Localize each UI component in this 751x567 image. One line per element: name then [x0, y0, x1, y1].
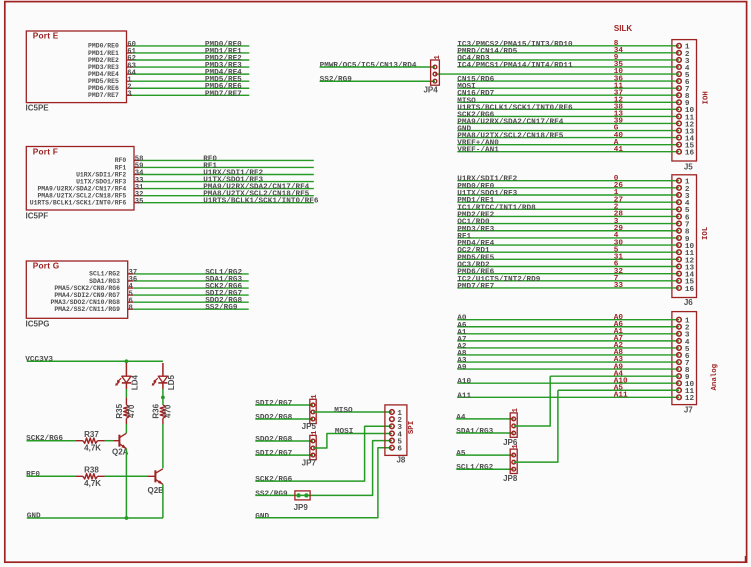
- svg-text:1: 1: [311, 394, 319, 399]
- svg-text:6: 6: [397, 446, 402, 454]
- svg-text:PMA9/U2RX/SDA2/CN17/RF4: PMA9/U2RX/SDA2/CN17/RF4: [457, 118, 563, 126]
- svg-text:JP7: JP7: [302, 458, 317, 467]
- svg-text:33: 33: [614, 282, 624, 290]
- svg-text:U1RTS/BCLK1/SCK1/INT0/RF6: U1RTS/BCLK1/SCK1/INT0/RF6: [203, 198, 319, 206]
- svg-text:JP8: JP8: [503, 474, 518, 483]
- svg-text:RF1: RF1: [115, 164, 127, 171]
- svg-text:VREF-/AN1: VREF-/AN1: [457, 147, 499, 155]
- svg-text:PMA2/SS2/CN11/RG9: PMA2/SS2/CN11/RG9: [54, 306, 120, 313]
- svg-text:1: 1: [512, 444, 520, 449]
- svg-text:SILK: SILK: [614, 24, 632, 33]
- svg-text:SDI2/RG7: SDI2/RG7: [255, 400, 292, 408]
- svg-text:SS2/RG9: SS2/RG9: [205, 304, 238, 312]
- svg-text:SCL1/RG2: SCL1/RG2: [456, 464, 493, 472]
- svg-text:A5: A5: [456, 450, 466, 458]
- svg-text:RF0: RF0: [115, 157, 127, 164]
- svg-text:GND: GND: [27, 513, 41, 521]
- svg-text:MISO: MISO: [334, 407, 353, 415]
- svg-text:3: 3: [127, 91, 131, 99]
- svg-text:1: 1: [434, 55, 442, 60]
- svg-text:4,7K: 4,7K: [84, 479, 101, 488]
- svg-text:16: 16: [685, 150, 695, 158]
- svg-text:1: 1: [311, 430, 319, 435]
- svg-text:Port G: Port G: [33, 261, 60, 271]
- svg-text:35: 35: [135, 198, 144, 206]
- svg-text:4,7K: 4,7K: [84, 443, 101, 452]
- svg-text:PMA5/SCK2/CN8/RG6: PMA5/SCK2/CN8/RG6: [54, 285, 120, 292]
- svg-text:A11: A11: [457, 392, 471, 400]
- svg-text:SPI: SPI: [408, 421, 416, 434]
- svg-text:PMD4/RE4: PMD4/RE4: [88, 71, 119, 78]
- svg-text:Port E: Port E: [33, 31, 59, 41]
- svg-text:R37: R37: [84, 430, 99, 439]
- svg-text:J6: J6: [684, 298, 693, 307]
- svg-text:A11: A11: [614, 392, 628, 400]
- svg-text:12: 12: [685, 395, 695, 403]
- svg-text:IC5PE: IC5PE: [26, 104, 50, 113]
- svg-text:PMD3/RE3: PMD3/RE3: [88, 64, 119, 71]
- svg-text:1: 1: [512, 408, 520, 413]
- svg-text:SS2/RG9: SS2/RG9: [320, 76, 353, 84]
- svg-text:PMD7/RE7: PMD7/RE7: [88, 92, 119, 99]
- svg-text:8: 8: [129, 304, 133, 312]
- svg-text:IC5PG: IC5PG: [26, 319, 50, 328]
- svg-text:U1TX/SDO1/RF3: U1TX/SDO1/RF3: [76, 178, 126, 185]
- svg-text:SDA1/RG3: SDA1/RG3: [456, 428, 493, 436]
- svg-text:PMA9/U2RX/SDA2/CN17/RF4: PMA9/U2RX/SDA2/CN17/RF4: [37, 185, 126, 192]
- svg-text:R38: R38: [84, 466, 99, 475]
- svg-text:SDO2/RG8: SDO2/RG8: [255, 436, 292, 444]
- svg-text:IOL: IOL: [702, 226, 710, 240]
- svg-text:IC5PF: IC5PF: [26, 211, 49, 220]
- svg-text:SCL1/RG2: SCL1/RG2: [89, 271, 120, 278]
- svg-text:SDA1/RG3: SDA1/RG3: [89, 278, 120, 285]
- svg-text:Q2B: Q2B: [148, 486, 165, 495]
- svg-text:RF0: RF0: [26, 471, 40, 479]
- svg-text:PMD5/RE5: PMD5/RE5: [88, 78, 119, 85]
- svg-text:LD5: LD5: [167, 374, 176, 390]
- svg-text:A10: A10: [457, 378, 471, 386]
- svg-text:J5: J5: [684, 162, 693, 171]
- svg-text:A4: A4: [456, 414, 466, 422]
- svg-text:GND: GND: [255, 513, 269, 521]
- svg-text:PMA4/SDI2/CN9/RG7: PMA4/SDI2/CN9/RG7: [54, 292, 120, 299]
- svg-text:Port F: Port F: [33, 146, 58, 156]
- svg-text:JP5: JP5: [302, 422, 317, 431]
- svg-text:PMA8/U2TX/SCL2/CN18/RF5: PMA8/U2TX/SCL2/CN18/RF5: [37, 192, 126, 199]
- svg-text:A9: A9: [457, 364, 467, 372]
- svg-text:PMWR/OC5/IC5/CN13/RD4: PMWR/OC5/IC5/CN13/RD4: [320, 62, 417, 70]
- svg-text:U1RTS/BCLK1/SCK1/INT0/RF6: U1RTS/BCLK1/SCK1/INT0/RF6: [30, 200, 127, 207]
- svg-text:SCK2/RG6: SCK2/RG6: [255, 476, 292, 484]
- svg-text:R36: R36: [151, 403, 160, 418]
- svg-text:LD4: LD4: [131, 374, 140, 390]
- svg-text:U1RX/SDI1/RF2: U1RX/SDI1/RF2: [76, 171, 126, 178]
- svg-text:SS2/RG9: SS2/RG9: [255, 490, 288, 498]
- svg-text:Analog: Analog: [711, 363, 719, 390]
- svg-text:PMD2/RE2: PMD2/RE2: [88, 57, 119, 64]
- svg-text:PMD6/RE6: PMD6/RE6: [88, 85, 119, 92]
- svg-text:JP9: JP9: [294, 503, 309, 512]
- svg-text:PMD7/RE7: PMD7/RE7: [205, 90, 242, 98]
- svg-text:J7: J7: [684, 405, 693, 414]
- svg-text:SCK2/RG6: SCK2/RG6: [26, 435, 63, 443]
- svg-text:16: 16: [685, 286, 695, 294]
- svg-text:R35: R35: [115, 403, 124, 418]
- svg-text:PMD1/RE1: PMD1/RE1: [88, 50, 119, 57]
- svg-text:J8: J8: [396, 455, 405, 464]
- svg-text:JP4: JP4: [423, 85, 438, 94]
- svg-text:VCC3V3: VCC3V3: [25, 356, 53, 364]
- svg-text:PMA3/SDO2/CN10/RG8: PMA3/SDO2/CN10/RG8: [50, 299, 120, 306]
- svg-text:IC4/PMCS1/PMA14/INT4/RD11: IC4/PMCS1/PMA14/INT4/RD11: [457, 62, 573, 70]
- svg-text:PMD0/RE0: PMD0/RE0: [88, 43, 119, 50]
- svg-text:SDI2/RG7: SDI2/RG7: [255, 450, 292, 458]
- svg-text:IOH: IOH: [703, 91, 711, 104]
- svg-text:470: 470: [164, 404, 173, 418]
- svg-text:PMD7/RE7: PMD7/RE7: [457, 283, 494, 291]
- svg-text:MOSI: MOSI: [335, 428, 354, 436]
- svg-text:41: 41: [614, 146, 624, 154]
- svg-text:470: 470: [127, 404, 136, 418]
- svg-text:SDO2/RG8: SDO2/RG8: [255, 414, 292, 422]
